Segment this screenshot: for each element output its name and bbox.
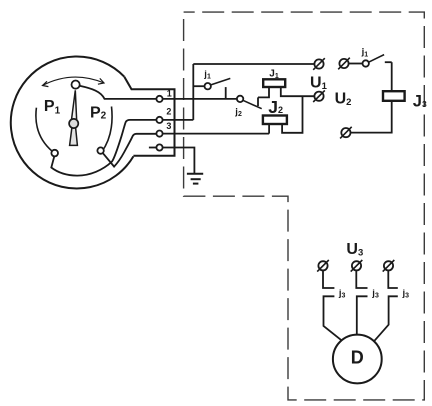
contact j2 fixed throw — [257, 97, 259, 106]
contact j3 phase 3 lower bracket — [374, 296, 397, 341]
terminal 4 stub — [149, 147, 157, 149]
wire: terminal 2 to riser — [163, 119, 194, 121]
dashed control-box boundary — [184, 12, 425, 400]
U3 phase terminal 1 — [317, 260, 329, 272]
U2 contact j1 blade — [369, 55, 385, 63]
P2 setpoint contact — [97, 147, 103, 153]
ground — [187, 174, 203, 184]
contact j3 phase 1 lower bracket — [324, 296, 343, 341]
needle tail — [70, 128, 78, 146]
pressure gauge P body outline — [11, 56, 175, 188]
U1 upper supply terminal — [313, 58, 325, 70]
contact j3 phase 3 upper bracket — [388, 271, 398, 288]
P1 setpoint contact — [51, 150, 58, 157]
wire: P2 contact to terminal 3 — [103, 134, 156, 167]
contact j1 blade — [211, 78, 231, 85]
gauge needle contact (top) — [72, 81, 80, 89]
relay coil J3 — [383, 91, 405, 101]
wire: P1 contact to terminal 2 — [51, 120, 156, 176]
terminal 4 — [156, 144, 162, 150]
U2 contact j1 fixed throw — [385, 61, 392, 63]
terminal 1 — [156, 96, 162, 102]
wire: riser to top rail — [192, 64, 194, 120]
U2 lower supply terminal — [340, 127, 352, 139]
wire: needle contact to terminal 1 — [80, 86, 157, 99]
needle upper blade — [71, 90, 77, 123]
wire: U2 terminal to contact j1 — [349, 63, 363, 65]
wire: terminal 1 to contact j2 — [163, 98, 237, 100]
P1 setpoint scale arc — [36, 108, 53, 152]
wire: terminal 3 to relay coil J2 — [163, 133, 270, 135]
contact j1 (wire from riser) — [193, 85, 204, 87]
contact j2 blade — [243, 100, 262, 108]
contact j1 moving pole — [205, 83, 211, 89]
contact j2 moving pole — [237, 96, 243, 102]
wire: J3 to U2 lower terminal — [351, 101, 392, 133]
gauge rotation arrow — [43, 77, 105, 85]
U3 phase terminal 3 — [383, 260, 395, 272]
J2 left pin — [268, 124, 270, 134]
needle pivot — [69, 119, 78, 128]
P2 setpoint scale arc — [102, 107, 112, 152]
contact j3 phase 1 upper bracket — [323, 271, 334, 288]
terminal 2 — [156, 117, 162, 123]
svg-text:2: 2 — [166, 106, 171, 116]
wire: j2 throw to relay coil J1 — [258, 87, 269, 97]
svg-text:3: 3 — [166, 121, 171, 131]
wire: J1 to U1 lower terminal — [281, 87, 315, 96]
svg-text:1: 1 — [167, 88, 172, 98]
relay coil J2 — [263, 116, 287, 125]
contact j3 phase 2 lower bracket — [357, 296, 368, 334]
contact j3 phase 2 upper bracket — [356, 271, 367, 288]
wire: top rail to U1 upper terminal — [193, 63, 314, 65]
U2 upper supply terminal — [338, 58, 350, 70]
contact j1 fixed throw — [225, 87, 227, 99]
U2 contact j1 moving pole — [363, 60, 369, 66]
relay coil J1 — [263, 79, 285, 87]
wire: terminal 4 to ground — [163, 148, 195, 174]
svg-text:D: D — [351, 348, 364, 368]
terminal 3 — [156, 131, 162, 137]
U3 phase terminal 2 — [351, 260, 363, 272]
wire: contact to relay coil J3 — [391, 62, 393, 91]
J2 right pin and wire to junction — [282, 96, 302, 133]
motor D — [333, 335, 382, 384]
U1 lower supply terminal — [313, 90, 325, 102]
